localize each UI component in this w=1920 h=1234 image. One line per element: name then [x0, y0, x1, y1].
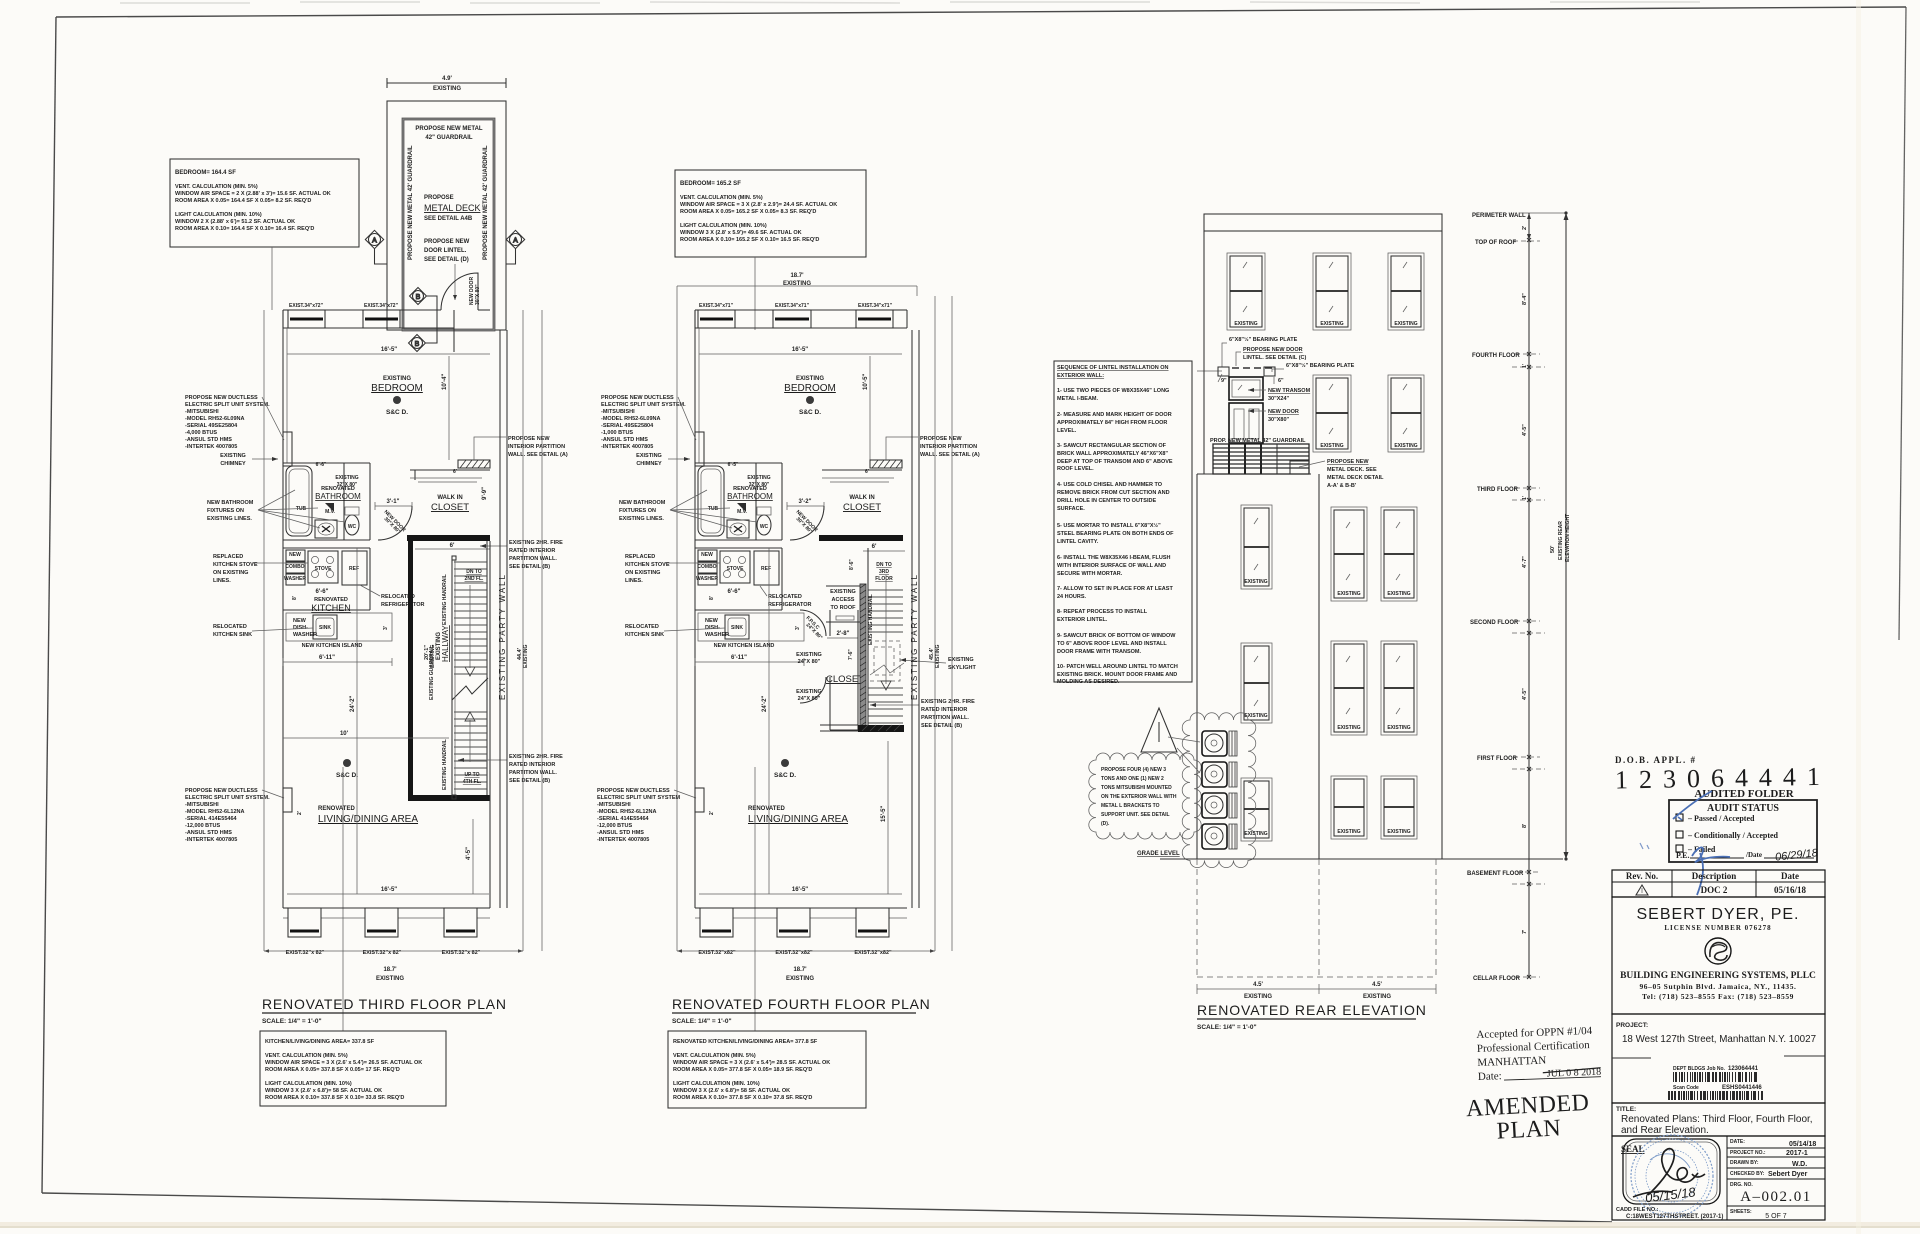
svg-text:05/14/18: 05/14/18 [1789, 1141, 1816, 1148]
svg-text:EXISTING LINES.: EXISTING LINES. [619, 516, 664, 522]
svg-text:SEE DETAIL (B): SEE DETAIL (B) [509, 778, 550, 784]
kitchen counters [283, 548, 370, 610]
company box [1612, 897, 1825, 1014]
svg-text:WALL. SEE DETAIL (A): WALL. SEE DETAIL (A) [508, 452, 568, 458]
svg-text:REF: REF [349, 566, 359, 572]
svg-text:10- PATCH WELL AROUND LINTEL T: 10- PATCH WELL AROUND LINTEL TO MATCH [1057, 664, 1178, 670]
svg-text:EXISTING: EXISTING [796, 376, 824, 382]
svg-text:– Passed / Accepted: – Passed / Accepted [1687, 814, 1755, 823]
svg-text:SEE DETAIL (D): SEE DETAIL (D) [424, 257, 469, 263]
svg-text:RELOCATED: RELOCATED [625, 624, 659, 630]
svg-text:Renovated Plans: Third Floor,: Renovated Plans: Third Floor, Fourth Flo… [1621, 1114, 1813, 1125]
svg-text:EXIST.34"x71": EXIST.34"x71" [699, 303, 734, 309]
svg-text:16'-5": 16'-5" [381, 347, 397, 353]
svg-text:1': 1' [1522, 496, 1528, 500]
svg-text:EXISTING 2HR. FIRE: EXISTING 2HR. FIRE [509, 540, 563, 546]
svg-text:PROPOSE NEW DUCTLESS: PROPOSE NEW DUCTLESS [185, 788, 258, 794]
svg-text:RENOVATED: RENOVATED [748, 806, 785, 812]
living split unit bump [283, 788, 292, 812]
svg-text:EXISTING: EXISTING [935, 645, 941, 668]
svg-text:EXISTING: EXISTING [1394, 321, 1417, 327]
metal deck guardrail [403, 119, 494, 330]
svg-text:DOOR LINTEL.: DOOR LINTEL. [424, 248, 467, 254]
left outer dim vertical [263, 310, 265, 951]
svg-text:STEEL BEARING PLATE ON BOTH EN: STEEL BEARING PLATE ON BOTH ENDS OF [1057, 531, 1174, 537]
svg-text:32"X 80": 32"X 80" [749, 482, 770, 488]
bes logo [1705, 938, 1731, 964]
svg-text:VENT. CALCULATION (MIN. 5%): VENT. CALCULATION (MIN. 5%) [673, 1053, 756, 1059]
svg-text:-INTERTEK 4007805: -INTERTEK 4007805 [185, 444, 237, 450]
dim 3-2 corridor [787, 499, 824, 510]
top window 2 [773, 303, 811, 328]
second floor window left [1241, 505, 1272, 589]
vertical dim 24-2 [350, 548, 357, 894]
svg-text:42" GUARDRAIL: 42" GUARDRAIL [425, 135, 473, 141]
first floor window right [1381, 641, 1417, 735]
svg-text:CHIMNEY: CHIMNEY [636, 461, 662, 467]
island dim 6-11 [695, 655, 804, 666]
svg-text:ROOM AREA X 0.05= 377.8 SF X 0: ROOM AREA X 0.05= 377.8 SF X 0.05= 18.9 … [673, 1067, 812, 1073]
svg-text:SECOND FLOOR: SECOND FLOOR [1470, 620, 1519, 626]
metal deck note [1299, 459, 1384, 489]
svg-text:AUDITED FOLDER: AUDITED FOLDER [1694, 788, 1794, 800]
stair direction arrows [465, 585, 475, 762]
svg-text:REMOVE BRICK FROM CUT SECTION: REMOVE BRICK FROM CUT SECTION AND [1057, 490, 1170, 496]
svg-text:2'-8": 2'-8" [837, 631, 850, 637]
party wall lines [498, 330, 507, 908]
svg-text:DEPT BLDGS Job No.: DEPT BLDGS Job No. [1673, 1066, 1726, 1072]
svg-text:10'-4": 10'-4" [442, 374, 448, 390]
kitchen labels [292, 585, 425, 613]
fire wall thick bottom of stair [858, 725, 904, 732]
svg-text:EXISTING: EXISTING [636, 453, 662, 459]
fourth floor plan title [672, 996, 931, 1025]
title box [1612, 1103, 1825, 1136]
svg-text:REPLACED: REPLACED [213, 554, 243, 560]
border left line [42, 17, 56, 1193]
svg-text:EXISTING 2HR. FIRE: EXISTING 2HR. FIRE [921, 699, 975, 705]
svg-text:APPROXIMATELY 84" HIGH FROM FL: APPROXIMATELY 84" HIGH FROM FLOOR [1057, 420, 1167, 426]
dn to 3rd floor label [875, 562, 893, 582]
svg-text:DEEP AT TOP OF TRANSOM AND 6": DEEP AT TOP OF TRANSOM AND 6" ABOVE [1057, 459, 1173, 465]
svg-text:18.7': 18.7' [790, 273, 804, 279]
svg-text:ROOM AREA X 0.10= 337.8 SF X 0: ROOM AREA X 0.10= 337.8 SF X 0.10= 33.8 … [265, 1095, 404, 1101]
washer dryer stack [696, 550, 718, 585]
fourth floor window mid [1313, 253, 1351, 330]
svg-text:7': 7' [1522, 929, 1528, 934]
svg-text:DRG. NO.: DRG. NO. [1730, 1182, 1753, 1188]
svg-text:ON EXISTING: ON EXISTING [625, 570, 660, 576]
svg-text:KITCHEN SINK: KITCHEN SINK [625, 632, 664, 638]
blue notary seal [1631, 1135, 1713, 1217]
svg-text:RATED INTERIOR: RATED INTERIOR [509, 762, 555, 768]
svg-text:REFRIGERATOR: REFRIGERATOR [381, 602, 425, 608]
svg-text:6'-6": 6'-6" [728, 589, 741, 595]
stair treads lower flight [454, 712, 487, 789]
svg-text:15'-5": 15'-5" [881, 806, 887, 822]
right info rows [1727, 1147, 1825, 1149]
triangle leader lines [1168, 737, 1200, 773]
svg-text:EXISTING: EXISTING [1337, 829, 1360, 835]
second floor window mid [1331, 507, 1367, 601]
svg-text:EXISTING HANDRAIL: EXISTING HANDRAIL [442, 739, 448, 790]
svg-text:PLAN: PLAN [1496, 1115, 1562, 1144]
kitchen counters [695, 548, 782, 610]
leader from calc box down [754, 257, 756, 330]
propose new interior partition note [474, 436, 568, 460]
section marker B upper [410, 288, 437, 343]
plan bottom wall [283, 908, 490, 918]
svg-text:Tel: (718) 523–8555 Fax: (: Tel: (718) 523–8555 Fax: (718) 523–8559 [1642, 992, 1794, 1001]
metal deck label [424, 195, 481, 222]
svg-text:RATED INTERIOR: RATED INTERIOR [921, 707, 967, 713]
svg-text:LIVING/DINING AREA: LIVING/DINING AREA [318, 814, 418, 825]
svg-text:S&C D.: S&C D. [336, 772, 358, 779]
svg-text:-MODEL RH52-6L12NA: -MODEL RH52-6L12NA [185, 809, 245, 815]
svg-text:RELOCATED: RELOCATED [768, 594, 802, 600]
svg-text:-SERIAL 414E55464: -SERIAL 414E55464 [597, 816, 650, 822]
svg-text:C:18WEST127THSTREET. (2017-1): C:18WEST127THSTREET. (2017-1) [1626, 1214, 1723, 1220]
svg-text:3': 3' [383, 626, 389, 630]
svg-text:NEW: NEW [293, 618, 307, 624]
svg-text:W.D.: W.D. [1792, 1161, 1807, 1168]
outer dim vertical right [541, 310, 543, 951]
svg-text:DN TO: DN TO [466, 569, 482, 575]
bottom window 1 [286, 908, 325, 956]
svg-text:REF: REF [761, 566, 771, 572]
svg-text:6': 6' [453, 469, 457, 475]
svg-text:7'-6": 7'-6" [848, 649, 854, 660]
deck guardrail elevation [1213, 444, 1309, 474]
calc note box kitchen living third floor [260, 1031, 446, 1106]
svg-text:LEVEL.: LEVEL. [1057, 428, 1077, 434]
section marker B lower [409, 335, 426, 352]
svg-text:Description: Description [1692, 871, 1737, 881]
ductless split unit note upper [185, 395, 284, 450]
svg-text:8'-4": 8'-4" [1522, 293, 1528, 305]
svg-text:EXISTING REAR: EXISTING REAR [1558, 521, 1564, 560]
svg-text:EXISTING: EXISTING [796, 652, 822, 658]
bottom window 3 [442, 908, 481, 956]
svg-text:-MODEL RH52-6L09NA: -MODEL RH52-6L09NA [185, 416, 245, 422]
svg-text:Scan Code: Scan Code [1673, 1085, 1699, 1091]
access to roof note [830, 589, 856, 611]
bathroom fixture leader lines [670, 490, 757, 528]
svg-text:-12,000 BTUS: -12,000 BTUS [185, 823, 220, 829]
svg-text:LINTEL CAVITY.: LINTEL CAVITY. [1057, 539, 1099, 545]
blue date 06/29/18 [1775, 847, 1820, 864]
svg-text:RELOCATED: RELOCATED [213, 624, 247, 630]
svg-text:WALK IN: WALK IN [849, 495, 874, 501]
svg-text:-SERIAL 49SE25804: -SERIAL 49SE25804 [601, 423, 654, 429]
svg-text:EXISTING: EXISTING [786, 976, 814, 982]
new dishwasher note [293, 618, 317, 638]
bathroom outline [283, 463, 370, 540]
stair down arrow [881, 575, 891, 690]
elevation overall height dim [1550, 211, 1571, 860]
svg-text:ROOM AREA X 0.10= 164.4 SF X 0: ROOM AREA X 0.10= 164.4 SF X 0.10= 16.4 … [175, 226, 314, 232]
svg-text:DRAWN BY:: DRAWN BY: [1730, 1160, 1759, 1166]
building walls upper [1204, 231, 1442, 859]
svg-text:EXIST.34"x71": EXIST.34"x71" [858, 303, 893, 309]
svg-text:PROJECT NO.:: PROJECT NO.: [1730, 1150, 1766, 1156]
svg-text:B: B [416, 294, 421, 301]
svg-text:-4,000 BTUS: -4,000 BTUS [185, 430, 217, 436]
svg-text:16'-5": 16'-5" [381, 887, 397, 893]
living dining labels [318, 806, 418, 825]
svg-text:VENT. CALCULATION (MIN. 5%): VENT. CALCULATION (MIN. 5%) [265, 1053, 348, 1059]
svg-text:8': 8' [709, 596, 715, 600]
kitchen island [286, 613, 392, 649]
svg-text:CADD FILE NO.:: CADD FILE NO.: [1616, 1207, 1659, 1213]
svg-text:PROPOSE: PROPOSE [424, 195, 454, 201]
bearing plate note 1 [1222, 336, 1298, 367]
svg-text:DOOR FRAME WITH TRANSOM.: DOOR FRAME WITH TRANSOM. [1057, 649, 1141, 655]
svg-text:A–002.01: A–002.01 [1740, 1189, 1812, 1205]
svg-text:EXISTING PARTY WALL: EXISTING PARTY WALL [498, 573, 507, 700]
svg-text:PARTITION WALL.: PARTITION WALL. [921, 715, 969, 721]
svg-text:EXISTING: EXISTING [430, 645, 436, 668]
ac unit 1 [1202, 731, 1237, 756]
bearing plate right [1264, 367, 1275, 376]
existing 2hr fire note upper [480, 540, 563, 570]
bearing plate left [1218, 367, 1229, 376]
svg-text:LIVING/DINING AREA: LIVING/DINING AREA [748, 814, 848, 825]
metal deck dimension 4.9 existing [387, 76, 506, 92]
svg-text:LINTEL. SEE DETAIL (C): LINTEL. SEE DETAIL (C) [1243, 355, 1307, 361]
ductless split unit note lower [185, 788, 284, 843]
chimney bump [695, 432, 704, 466]
up to 4th fl label [463, 772, 482, 785]
svg-text:PROPOSE NEW DOOR: PROPOSE NEW DOOR [1243, 347, 1303, 353]
leader from calc box down [271, 247, 273, 310]
svg-text:FLOOR: FLOOR [875, 576, 893, 582]
relocated refrigerator note [760, 586, 812, 608]
svg-text:6- INSTALL THE W8X35X46 I-BEAM: 6- INSTALL THE W8X35X46 I-BEAM, FLUSH [1057, 555, 1171, 561]
svg-text:NEW KITCHEN ISLAND: NEW KITCHEN ISLAND [302, 643, 363, 649]
dim 10 living [283, 731, 449, 738]
svg-text:4'-7": 4'-7" [1522, 556, 1528, 568]
svg-text:SCALE: 1/4" = 1'-0": SCALE: 1/4" = 1'-0" [672, 1018, 732, 1025]
svg-text:-SERIAL 49SE25804: -SERIAL 49SE25804 [185, 423, 238, 429]
ac unit 2 [1202, 762, 1237, 787]
svg-text:NEW: NEW [705, 618, 719, 624]
svg-text:NEW BATHROOM: NEW BATHROOM [207, 500, 254, 506]
closet door upper [800, 610, 826, 641]
border bottom line [42, 1193, 1612, 1222]
bathroom fixtures [315, 503, 359, 538]
svg-text:EXISTING: EXISTING [1337, 725, 1360, 731]
svg-text:-SERIAL 414E55464: -SERIAL 414E55464 [185, 816, 238, 822]
svg-text:9": 9" [1221, 378, 1227, 384]
svg-text:B: B [415, 341, 420, 348]
svg-text:4'-5": 4'-5" [1522, 424, 1528, 436]
svg-text:LIGHT CALCULATION (MIN. 10%): LIGHT CALCULATION (MIN. 10%) [673, 1081, 760, 1087]
svg-text:TOP OF ROOF: TOP OF ROOF [1475, 240, 1516, 246]
svg-text:THIRD FLOOR: THIRD FLOOR [1477, 487, 1519, 493]
svg-text:WITH INTERIOR SURFACE OF WALL: WITH INTERIOR SURFACE OF WALL AND [1057, 563, 1166, 569]
svg-text:CHECKED BY:: CHECKED BY: [1730, 1171, 1765, 1177]
svg-text:LINES.: LINES. [625, 578, 643, 584]
scan artifact right cream streak [1856, 0, 1861, 1234]
living room dot [781, 759, 789, 767]
svg-text:WINDOW AIR SPACE = 3 X (2.6' x: WINDOW AIR SPACE = 3 X (2.6' x 5.4')= 28… [673, 1060, 830, 1066]
svg-text:ELEVATION HEIGHT: ELEVATION HEIGHT [1565, 514, 1571, 562]
plan top wall [283, 310, 490, 352]
svg-text:Date:: Date: [1478, 1070, 1502, 1083]
svg-text:EXTERIOR LINTEL.: EXTERIOR LINTEL. [1057, 617, 1108, 623]
corridor door arc [790, 506, 824, 540]
new door note [1248, 409, 1299, 423]
svg-text:EXISTING: EXISTING [1387, 725, 1410, 731]
svg-text:FIXTURES ON: FIXTURES ON [207, 508, 244, 514]
metal deck outer outline [387, 101, 506, 330]
top window 1 [698, 303, 735, 328]
svg-text:3'-2": 3'-2" [799, 499, 812, 505]
svg-text:24'-2": 24'-2" [350, 696, 356, 712]
walk-in closet [410, 469, 490, 513]
svg-text:6'-11": 6'-11" [319, 655, 335, 661]
closet dividers [826, 586, 860, 622]
third floor plan title [262, 996, 507, 1025]
svg-text:EXISTING: EXISTING [830, 589, 856, 595]
vertical dim 24-2 [762, 548, 769, 894]
bedroom vertical dim 10-5 [863, 356, 870, 460]
party wall lines [910, 330, 919, 908]
svg-text:EXIST.34"x71": EXIST.34"x71" [775, 303, 810, 309]
svg-text:P.E.: P.E. [1676, 851, 1690, 860]
svg-text:BEDROOM= 165.2 SF: BEDROOM= 165.2 SF [680, 181, 741, 187]
door lintel note [424, 239, 470, 300]
svg-text:EXISTING: EXISTING [1387, 829, 1410, 835]
fourth floor window right [1388, 253, 1424, 330]
svg-text:-ANSUL STD HMS: -ANSUL STD HMS [185, 830, 232, 836]
svg-text:STOVE: STOVE [315, 566, 333, 572]
svg-text:PROPOSE NEW METAL: PROPOSE NEW METAL [415, 126, 483, 132]
svg-text:WALK IN: WALK IN [437, 495, 462, 501]
svg-text:REFRIGERATOR: REFRIGERATOR [768, 602, 812, 608]
svg-text:WC: WC [760, 524, 769, 530]
replaced kitchen stove note [213, 554, 308, 584]
bathroom labels [315, 462, 361, 515]
building parapet [1204, 214, 1442, 231]
kitchen fridge [754, 551, 779, 585]
svg-text:-MITSUBISHI: -MITSUBISHI [597, 802, 631, 808]
svg-text:A: A [372, 238, 377, 245]
svg-text:EXTERIOR WALL:: EXTERIOR WALL: [1057, 373, 1104, 379]
svg-text:(D).: (D). [1101, 821, 1110, 827]
svg-text:and Rear Elevation.: and Rear Elevation. [1621, 1125, 1709, 1136]
svg-text:EXISTING: EXISTING [1337, 591, 1360, 597]
walk-in closet [822, 469, 902, 513]
svg-text:-1,000 BTUS: -1,000 BTUS [601, 430, 633, 436]
dim 15-5 rotated [881, 741, 888, 894]
svg-text:PROPOSE NEW DUCTLESS: PROPOSE NEW DUCTLESS [185, 395, 258, 401]
svg-text:WINDOW 3 X (2.6' x 6.8')= 58 S: WINDOW 3 X (2.6' x 6.8')= 58 SF. ACTUAL … [265, 1088, 382, 1094]
svg-text:EXISTING: EXISTING [1363, 994, 1391, 1000]
svg-text:50': 50' [1550, 545, 1556, 553]
svg-text:BATHROOM: BATHROOM [727, 492, 773, 501]
svg-text:-MITSUBISHI: -MITSUBISHI [185, 802, 219, 808]
accepted OPPN stamp [1476, 1025, 1601, 1083]
svg-text:4'-5": 4'-5" [466, 847, 472, 860]
svg-text:ELECTRIC SPLIT UNIT SYSTEM.: ELECTRIC SPLIT UNIT SYSTEM. [601, 402, 686, 408]
svg-text:7- ALLOW TO SET IN PLACE FOR A: 7- ALLOW TO SET IN PLACE FOR AT LEAST [1057, 586, 1173, 592]
new dishwasher note [705, 618, 729, 638]
existing 2hr fire note lower [870, 699, 975, 729]
kitchen stove [720, 551, 750, 583]
svg-text:LICENSE NUMBER 076278: LICENSE NUMBER 076278 [1664, 924, 1771, 932]
svg-text:EXISTING: EXISTING [523, 645, 529, 668]
svg-text:COMBO: COMBO [697, 564, 716, 570]
svg-text:EXISTING: EXISTING [1320, 321, 1343, 327]
svg-text:EXISTING: EXISTING [1387, 591, 1410, 597]
new transom note [1248, 388, 1311, 402]
third floor window mid [1313, 375, 1351, 452]
calc note box bedroom third floor [170, 159, 359, 247]
svg-text:123064441: 123064441 [1728, 1066, 1759, 1072]
svg-text:DRILL HOLE IN CENTER TO OUTSID: DRILL HOLE IN CENTER TO OUTSIDE [1057, 498, 1156, 504]
svg-text:REPLACED: REPLACED [625, 554, 655, 560]
svg-text:METAL DECK. SEE: METAL DECK. SEE [1327, 467, 1377, 473]
svg-text:NEW: NEW [701, 552, 713, 558]
kitchen fridge [342, 551, 367, 585]
plan bottom wall [695, 908, 907, 918]
svg-text:EXIST.34"x72": EXIST.34"x72" [364, 303, 399, 309]
svg-text:EXISTING: EXISTING [433, 86, 461, 92]
svg-text:EXISTING: EXISTING [1244, 994, 1272, 1000]
closet labels [796, 652, 864, 702]
stair break line [452, 678, 488, 700]
svg-text:RENOVATED REAR ELEVATION: RENOVATED REAR ELEVATION [1197, 1002, 1427, 1018]
svg-text:PROPOSE FOUR (4) NEW 3: PROPOSE FOUR (4) NEW 3 [1101, 767, 1166, 773]
floor level labels [1467, 213, 1566, 982]
svg-text:TO ROOF: TO ROOF [831, 605, 857, 611]
svg-text:3': 3' [795, 626, 801, 630]
svg-text:ELECTRIC SPLIT UNIT SYSTEM.: ELECTRIC SPLIT UNIT SYSTEM. [185, 402, 270, 408]
svg-text:WALL. SEE DETAIL (A): WALL. SEE DETAIL (A) [920, 452, 980, 458]
svg-text:SURFACE.: SURFACE. [1057, 506, 1085, 512]
relocated kitchen sink note [625, 624, 725, 638]
svg-text:METAL L BRACKETS TO: METAL L BRACKETS TO [1101, 803, 1160, 809]
svg-text:COMBO: COMBO [285, 564, 304, 570]
third floor window right [1388, 375, 1424, 452]
svg-text:8'-6": 8'-6" [849, 559, 855, 570]
bedroom dimension 16-5 [287, 347, 490, 354]
dim 2-8 closet [827, 631, 858, 638]
svg-text:32"X 80": 32"X 80" [337, 482, 358, 488]
svg-text:TONS AND ONE (1) NEW 2: TONS AND ONE (1) NEW 2 [1101, 776, 1164, 782]
svg-text:-INTERTEK 4007805: -INTERTEK 4007805 [597, 837, 649, 843]
dim 4-5 rotated [466, 819, 473, 894]
svg-text:INTERIOR PARTITION: INTERIOR PARTITION [508, 444, 565, 450]
bathroom fixture leader lines [258, 490, 345, 528]
propose new interior partition note [886, 436, 980, 460]
svg-text:VENT. CALCULATION (MIN. 5%): VENT. CALCULATION (MIN. 5%) [680, 195, 763, 201]
bathroom outline [695, 463, 782, 540]
svg-text:METAL I-BEAM.: METAL I-BEAM. [1057, 396, 1099, 402]
svg-text:RENOVATED THIRD FLOOR PLAN: RENOVATED THIRD FLOOR PLAN [262, 996, 507, 1012]
svg-text:FIRST FLOOR: FIRST FLOOR [1477, 756, 1518, 762]
plan left wall [694, 310, 696, 908]
svg-text:EXISTING: EXISTING [796, 689, 822, 695]
top window 2 [363, 303, 400, 328]
svg-text:KITCHEN/LIVING/DINING AREA= 33: KITCHEN/LIVING/DINING AREA= 337.8 SF [265, 1039, 375, 1045]
svg-text:3- SAWCUT RECTANGULAR SECTION: 3- SAWCUT RECTANGULAR SECTION OF [1057, 443, 1167, 449]
svg-text:S&C D.: S&C D. [386, 409, 408, 416]
svg-text:CELLAR FLOOR: CELLAR FLOOR [1473, 976, 1521, 982]
svg-text:WINDOW AIR SPACE = 3 X (2.6' x: WINDOW AIR SPACE = 3 X (2.6' x 5.4')= 26… [265, 1060, 422, 1066]
